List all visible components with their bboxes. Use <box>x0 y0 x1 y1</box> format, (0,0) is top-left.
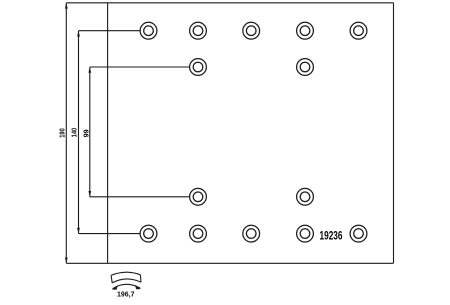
svg-text:196,7: 196,7 <box>117 289 135 298</box>
svg-text:190: 190 <box>59 128 66 138</box>
svg-text:140: 140 <box>71 128 78 138</box>
svg-text:19236: 19236 <box>320 228 343 242</box>
svg-text:99: 99 <box>83 129 90 137</box>
